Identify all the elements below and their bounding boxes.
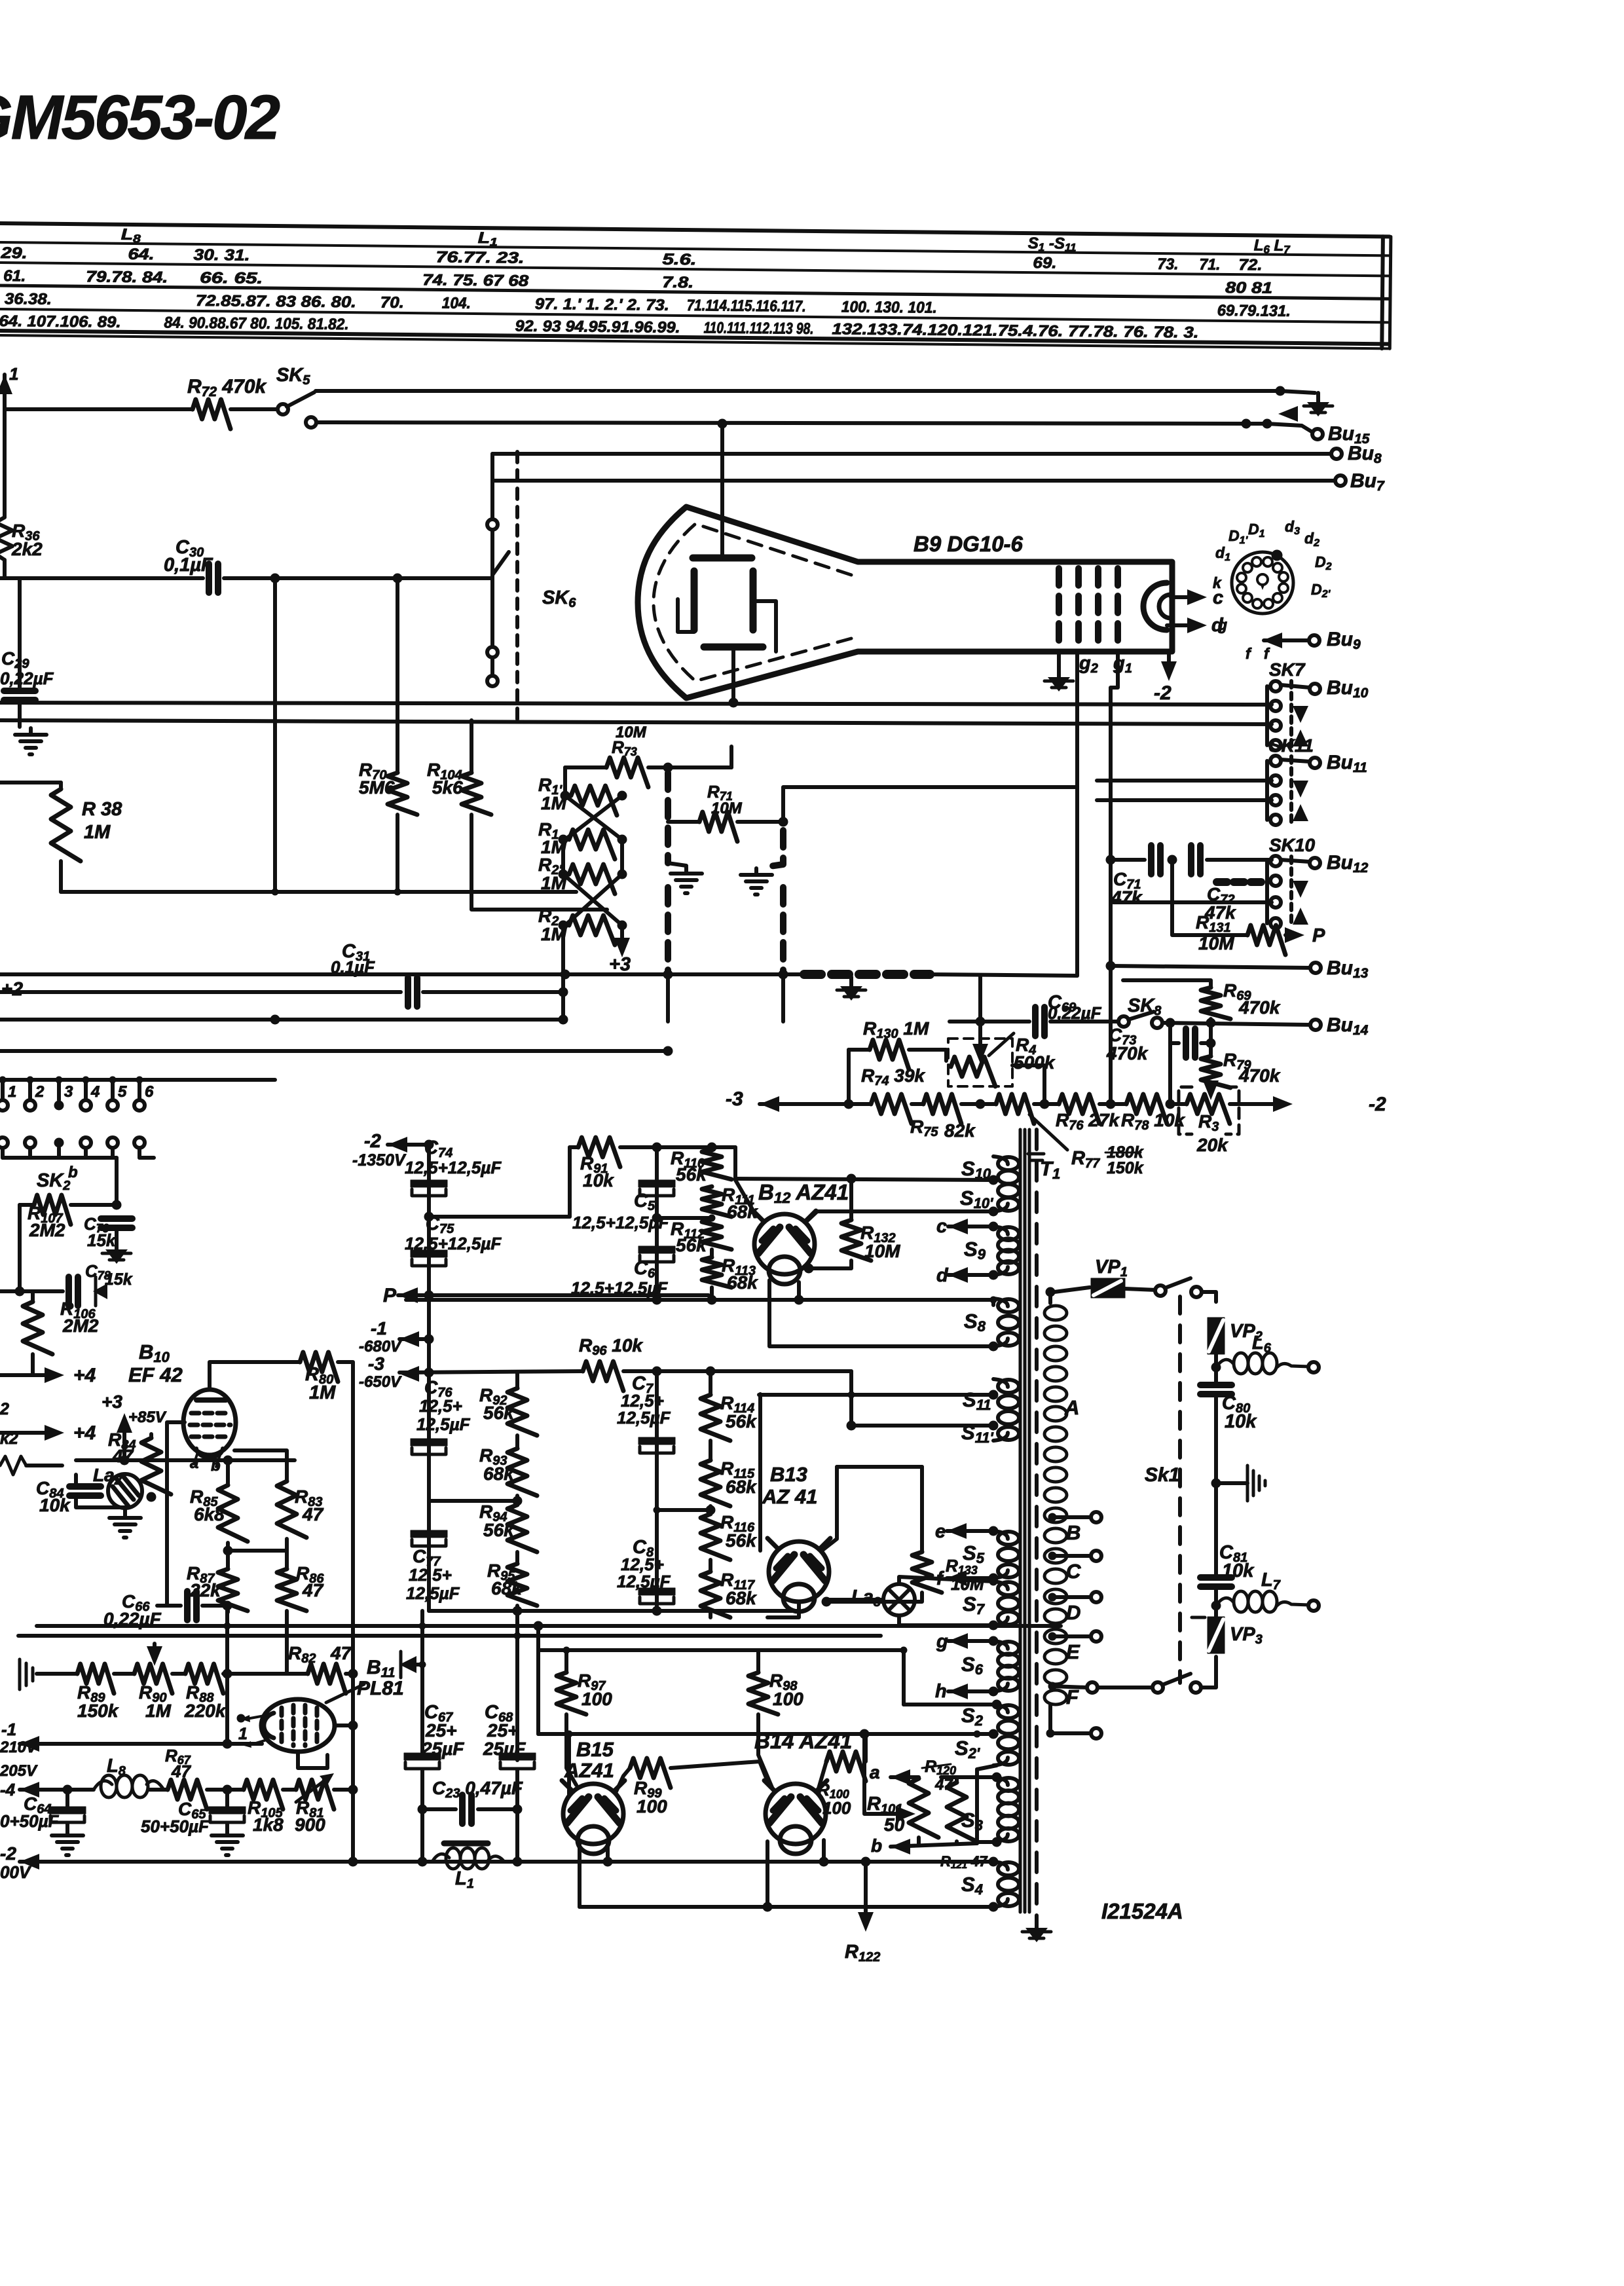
left edge wire — [3, 409, 7, 517]
svg-text:C: C — [1066, 1560, 1081, 1583]
wire +4 lower — [0, 1431, 52, 1435]
plate lead — [720, 517, 724, 558]
resistor R77 — [996, 1094, 1034, 1124]
arrow f — [947, 1570, 967, 1586]
wire — [710, 1249, 714, 1257]
blade right contact — [1190, 1682, 1201, 1693]
C68 column wire — [515, 1611, 519, 1760]
cathode -2 lead — [1167, 652, 1171, 665]
terminal Bu9 — [1309, 635, 1319, 646]
junction — [976, 1017, 985, 1026]
node — [618, 791, 627, 800]
node — [559, 921, 568, 930]
svg-text:+2: +2 — [1, 979, 23, 1000]
svg-text:k: k — [1213, 574, 1222, 591]
VP1 — [1091, 1278, 1125, 1298]
svg-text:10M: 10M — [1198, 933, 1234, 953]
resistor R98 — [748, 1672, 778, 1714]
node — [618, 870, 627, 879]
lamp La3 — [883, 1584, 915, 1615]
wire — [709, 1611, 712, 1617]
bus — [0, 1018, 563, 1022]
C5/C6 column wire — [655, 1147, 659, 1300]
wire — [515, 1552, 519, 1564]
svg-text:100: 100 — [581, 1689, 612, 1709]
svg-text:69.79.131.: 69.79.131. — [1217, 302, 1291, 320]
B12 plate lead — [735, 1180, 754, 1213]
svg-text:a: a — [870, 1762, 880, 1782]
junction — [989, 1577, 997, 1585]
resistor R73 — [606, 758, 648, 787]
B13 cathode wire — [767, 1602, 799, 1617]
resistor R82 — [308, 1664, 346, 1693]
P wire — [398, 1293, 709, 1297]
wire down — [115, 1158, 119, 1205]
CRT anode cup — [1143, 583, 1167, 630]
R4 wiper wire — [978, 1025, 982, 1054]
svg-text:b: b — [871, 1835, 882, 1856]
svg-text:5M6: 5M6 — [359, 777, 395, 798]
tap B wire — [1052, 1515, 1092, 1519]
svg-text:-3: -3 — [368, 1354, 384, 1374]
wire R133 to cathode — [826, 1593, 922, 1602]
CRT grid bar — [1115, 568, 1121, 645]
chassis arrow — [93, 1283, 107, 1299]
svg-text:92. 93 94.95.91.96.99.: 92. 93 94.95.91.96.99. — [515, 318, 680, 337]
svg-text:R76 27k: R76 27k — [1056, 1110, 1120, 1133]
svg-text:47: 47 — [330, 1643, 352, 1663]
svg-text:47: 47 — [302, 1504, 324, 1524]
B12 cathode lead — [797, 1282, 801, 1300]
wire -1 210V — [20, 1742, 227, 1746]
svg-text:B15: B15 — [576, 1738, 614, 1761]
wire g — [948, 1639, 993, 1643]
arrow d — [1187, 618, 1207, 633]
junction — [652, 1143, 661, 1152]
SK7 contact — [1270, 740, 1281, 750]
wire R71 to g2 column — [783, 787, 1077, 822]
svg-text:2M2: 2M2 — [62, 1316, 99, 1336]
wire -3 — [760, 1102, 871, 1106]
transformer T1 core — [1020, 1130, 1029, 1912]
junction — [15, 1287, 24, 1296]
R90 adjust stem — [153, 1644, 157, 1657]
svg-text:1k8: 1k8 — [253, 1815, 284, 1835]
stem junction — [0, 1077, 6, 1083]
bridge cross wire — [563, 874, 622, 925]
wire — [648, 765, 731, 769]
arrow -2 bus — [20, 1854, 39, 1870]
terminal Bu10 — [1310, 684, 1320, 694]
winding S8 — [993, 1299, 1019, 1346]
junction — [990, 1297, 997, 1303]
arrow -3 — [760, 1096, 779, 1112]
wire -2 — [1230, 1102, 1282, 1106]
B14 right lead — [822, 1840, 826, 1862]
wire down — [666, 974, 670, 1022]
winding S9 — [993, 1226, 1019, 1275]
right link — [620, 839, 624, 874]
wire — [515, 1435, 519, 1448]
svg-text:00V: 00V — [0, 1862, 32, 1882]
R79 arrow into R3 — [1203, 1080, 1219, 1100]
socket pin — [1279, 572, 1288, 581]
svg-text:132.133.74.120.121.75.4.76. 7: 132.133.74.120.121.75.4.76. 77.78. 76. 7… — [832, 320, 1198, 341]
junction — [561, 970, 570, 979]
resistor R96 — [583, 1361, 623, 1391]
junction — [559, 987, 568, 997]
wire — [781, 974, 785, 1022]
svg-text:110.111.112.113 98.: 110.111.112.113 98. — [703, 319, 813, 338]
junction — [974, 1731, 980, 1737]
svg-text:-650V: -650V — [359, 1373, 402, 1391]
wire — [420, 1809, 424, 1862]
svg-text:+4: +4 — [73, 1365, 96, 1386]
junction — [663, 970, 673, 979]
chassis arrow left — [399, 1656, 416, 1673]
blade contact — [1153, 1682, 1163, 1693]
core ground — [1022, 1919, 1051, 1942]
wire to ground — [1216, 1481, 1247, 1485]
junction — [224, 1623, 231, 1629]
potentiometer R4 — [951, 1057, 995, 1086]
svg-text:-2: -2 — [0, 1843, 16, 1864]
capacitor C68 body — [499, 1753, 536, 1769]
terminal stem — [1, 1080, 5, 1100]
junction — [1276, 386, 1285, 396]
CRT anode inner — [1159, 595, 1171, 618]
svg-text:b: b — [68, 1164, 78, 1181]
wire — [1209, 1088, 1213, 1092]
tube B13 AZ41 — [767, 1538, 830, 1612]
resistor R1' — [571, 786, 617, 815]
junction — [861, 1857, 870, 1866]
stem — [28, 1148, 32, 1158]
tap E — [1048, 1632, 1056, 1640]
tube B15 AZ41 — [562, 1780, 625, 1854]
stub — [991, 1299, 995, 1305]
wire R130 to R4 — [909, 1050, 946, 1061]
resistor R130 — [870, 1040, 909, 1069]
wire R96 right — [623, 1369, 851, 1373]
svg-text:B13: B13 — [770, 1463, 807, 1486]
bus to Bu7 — [492, 479, 1336, 483]
B11 cathode loop — [298, 1752, 327, 1768]
socket pin — [1263, 557, 1272, 566]
arrow at Bu15 — [1278, 406, 1298, 422]
wire — [65, 1790, 69, 1807]
svg-text:12,5+12,5µF: 12,5+12,5µF — [405, 1158, 502, 1177]
junction — [989, 1207, 998, 1216]
wire — [226, 1543, 230, 1569]
capacitor C65 — [209, 1807, 246, 1822]
wire — [422, 1807, 456, 1811]
wire — [283, 1788, 296, 1792]
SK2 contact 6 — [134, 1100, 145, 1111]
svg-text:SK11: SK11 — [1269, 735, 1314, 756]
wire — [1099, 1102, 1126, 1106]
junction — [794, 1295, 803, 1304]
wire to SK10 — [1113, 900, 1272, 904]
terminal Bu14 — [1310, 1020, 1321, 1030]
coil L8 — [94, 1775, 164, 1797]
SK2b contact 2 — [25, 1137, 35, 1148]
svg-text:64. 107.106. 89.: 64. 107.106. 89. — [0, 312, 121, 331]
svg-text:4: 4 — [90, 1083, 100, 1101]
svg-text:I21524A: I21524A — [1101, 1899, 1183, 1923]
winding S4 — [993, 1862, 1019, 1907]
junction — [989, 1342, 998, 1351]
capacitor C30 — [209, 564, 218, 593]
wire to R38 — [0, 781, 61, 784]
resistor R92 — [507, 1388, 537, 1435]
SK10 contact — [1270, 897, 1281, 908]
wire C31 right — [423, 990, 563, 994]
junction — [989, 1729, 998, 1739]
plate wire — [678, 599, 694, 632]
svg-text:1: 1 — [238, 1725, 248, 1743]
wire bus to CRT — [720, 424, 724, 517]
bus — [0, 1078, 275, 1082]
svg-text:56k: 56k — [676, 1164, 707, 1185]
wire — [20, 1788, 94, 1792]
wire to C71 — [1111, 858, 1145, 862]
svg-text:64.: 64. — [128, 246, 154, 263]
wire to blade — [1098, 1686, 1154, 1689]
SK11 contact — [1270, 775, 1281, 786]
svg-text:c: c — [936, 1216, 947, 1237]
svg-text:104.: 104. — [442, 294, 471, 312]
wire h — [948, 1689, 993, 1693]
socket pin — [1273, 593, 1282, 602]
svg-text:k2: k2 — [0, 1429, 18, 1448]
B10 grid wire down — [167, 1422, 185, 1606]
arrow a — [891, 1769, 910, 1785]
tap C wire — [1052, 1554, 1092, 1558]
SK7 arrow down — [1293, 706, 1308, 723]
wire — [3, 560, 7, 578]
svg-text:66. 65.: 66. 65. — [200, 269, 263, 287]
junction — [822, 1597, 831, 1606]
svg-text:1: 1 — [9, 364, 18, 384]
resistor R81 — [296, 1780, 334, 1809]
ground C64 — [52, 1829, 83, 1855]
socket pin — [1237, 584, 1246, 593]
stem junction — [136, 1077, 143, 1083]
svg-text:72.: 72. — [1238, 256, 1262, 274]
SK11 contact — [1270, 756, 1281, 766]
wire a — [891, 1775, 919, 1779]
wire — [1209, 1019, 1213, 1056]
capacitor C8 — [638, 1588, 675, 1604]
tap C terminal — [1091, 1551, 1101, 1561]
SK10 bracket — [1265, 861, 1269, 923]
wire — [123, 1507, 127, 1511]
coil L1 core bar — [444, 1841, 488, 1847]
wire to R99 — [616, 1768, 630, 1793]
wire — [565, 765, 606, 769]
junction — [418, 1857, 427, 1866]
B10 anode wire — [210, 1362, 300, 1390]
capacitor C7 — [638, 1437, 675, 1453]
wire — [1214, 1587, 1218, 1617]
junction L6 — [1211, 1363, 1221, 1372]
wire to R133 — [837, 1465, 922, 1469]
arrow c — [1187, 589, 1207, 605]
capacitor C71 — [1151, 845, 1160, 874]
svg-text:25+: 25+ — [425, 1720, 457, 1741]
tap C — [1048, 1552, 1056, 1560]
bus 2 — [18, 1634, 881, 1638]
junction — [270, 574, 280, 583]
svg-text:6: 6 — [145, 1083, 154, 1101]
wire to S2 tap — [538, 1732, 997, 1736]
tap blade — [1048, 1682, 1056, 1690]
wire — [225, 1823, 229, 1830]
svg-text:SK10: SK10 — [1269, 835, 1315, 855]
junction — [513, 1496, 522, 1505]
svg-text:P: P — [1312, 925, 1325, 946]
pin dot — [237, 1714, 245, 1722]
R101 wiper wire — [864, 1734, 902, 1814]
resistor R79 — [1201, 1056, 1230, 1088]
svg-text:12,5+: 12,5+ — [419, 1396, 462, 1416]
switch Sk1 gang line — [1178, 1297, 1182, 1683]
tube B12 AZ41 — [753, 1211, 816, 1284]
bus +2 — [0, 972, 804, 976]
junction — [989, 1222, 998, 1231]
SK11 arrow down — [1293, 781, 1308, 798]
svg-text:1: 1 — [8, 1083, 16, 1101]
node — [618, 921, 627, 930]
junction — [513, 1606, 522, 1615]
SK2b contact 5 — [107, 1137, 118, 1148]
arrow -4 — [20, 1782, 39, 1797]
svg-text:56k: 56k — [726, 1411, 757, 1431]
arrow -1 — [399, 1331, 419, 1347]
svg-text:1M: 1M — [145, 1701, 172, 1721]
svg-text:79.78. 84.: 79.78. 84. — [86, 268, 168, 286]
junction — [424, 1291, 434, 1300]
resistor R83 — [277, 1481, 306, 1538]
stub — [416, 1663, 422, 1667]
resistor R133 — [912, 1552, 942, 1593]
junction — [424, 1140, 434, 1149]
wire to R4 right — [1012, 1065, 1044, 1104]
vertical wire — [273, 578, 277, 892]
resistor R94 — [507, 1505, 537, 1552]
wire — [59, 783, 63, 789]
ground — [1304, 393, 1333, 416]
wire — [478, 1807, 517, 1811]
wire to S2 — [904, 1703, 997, 1706]
C8 column wire — [655, 1510, 659, 1611]
resistor R2' — [569, 864, 615, 894]
svg-text:0,22µF: 0,22µF — [0, 669, 54, 688]
terminal Bu15 — [1312, 429, 1323, 439]
wire — [223, 1672, 308, 1676]
socket pin — [1237, 573, 1246, 582]
wire to Bu13 — [1111, 966, 1311, 968]
junction — [989, 1687, 998, 1696]
svg-text:R78 10k: R78 10k — [1121, 1110, 1185, 1133]
capacitor C75 — [411, 1250, 447, 1266]
svg-text:2: 2 — [35, 1083, 45, 1101]
svg-text:+85V: +85V — [128, 1409, 167, 1426]
wire — [207, 1788, 244, 1792]
g1 wire down — [1111, 652, 1118, 1104]
B15 plate wire — [567, 1734, 571, 1794]
junction — [654, 1507, 660, 1513]
x — [352, 1625, 354, 1627]
resistor R95 — [507, 1564, 537, 1606]
junction — [424, 1212, 434, 1221]
capacitor C29 — [4, 691, 35, 700]
junction — [223, 1785, 232, 1794]
lamp La2 — [108, 1474, 142, 1508]
junction gnd — [1211, 1479, 1221, 1488]
svg-text:EF 42: EF 42 — [128, 1363, 183, 1386]
B15 right lead — [606, 1840, 610, 1862]
svg-text:R 38: R 38 — [82, 799, 122, 820]
wire to C31 — [0, 990, 401, 994]
wire to Bu12 — [1281, 860, 1310, 862]
primary bottom lead — [1050, 1705, 1092, 1733]
SK2 contact 5 — [107, 1100, 118, 1111]
node — [561, 791, 570, 800]
svg-text:-2: -2 — [364, 1131, 381, 1152]
resistor R72 — [193, 399, 231, 429]
ground on bus — [837, 977, 866, 1001]
resistor R113 — [702, 1257, 731, 1287]
resistor R36 (partial at edge) — [0, 517, 12, 560]
arrow -3 — [399, 1366, 419, 1382]
R132 wire — [849, 1179, 853, 1220]
CRT grid bar — [1095, 568, 1101, 645]
resistor R75 — [923, 1094, 961, 1124]
hook — [668, 863, 686, 866]
SK2b contact 1 — [0, 1137, 8, 1148]
junction — [847, 1174, 856, 1183]
junction — [566, 1731, 572, 1737]
svg-text:82k: 82k — [944, 1120, 976, 1141]
wire — [228, 1549, 287, 1553]
wire to C29 — [18, 578, 22, 688]
junction — [989, 1270, 998, 1280]
wire — [388, 1143, 429, 1147]
wire to Bu15 — [1267, 424, 1314, 433]
resistor R86 — [277, 1569, 306, 1611]
winding S6 — [993, 1641, 1019, 1691]
resistor R76 — [1059, 1094, 1099, 1124]
riser x347 — [225, 1626, 229, 1744]
svg-text:-4: -4 — [0, 1780, 16, 1799]
wire down to C69 — [978, 976, 982, 1019]
resistor R84 — [141, 1438, 171, 1494]
svg-text:47: 47 — [302, 1580, 324, 1600]
Sk1 contact right — [1191, 1287, 1202, 1297]
junction Bu15 — [1263, 419, 1272, 428]
resistor R90 — [134, 1664, 172, 1693]
resistor R131 — [1247, 925, 1285, 955]
wire — [709, 1506, 712, 1514]
junction — [418, 1805, 427, 1814]
wire left — [18, 1205, 22, 1291]
wire — [226, 1460, 230, 1485]
resistor R2 — [569, 915, 615, 945]
svg-text:15k: 15k — [105, 1270, 133, 1289]
svg-text:100: 100 — [773, 1689, 803, 1709]
